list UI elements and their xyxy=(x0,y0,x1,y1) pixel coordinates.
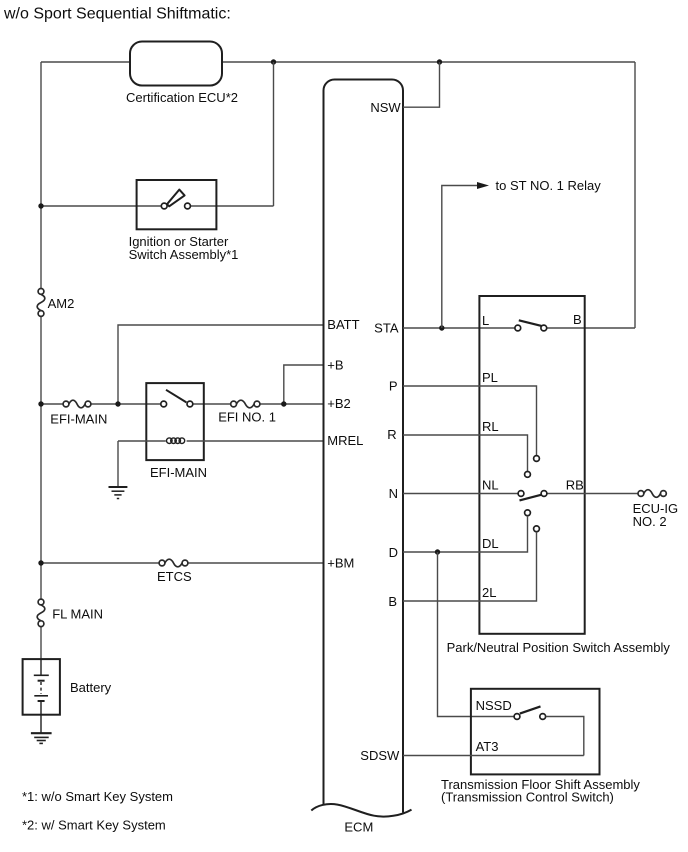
pin P xyxy=(389,379,398,394)
svg-text:w/o Sport Sequential Shiftmati: w/o Sport Sequential Shiftmatic: xyxy=(3,6,231,23)
wire P row xyxy=(403,386,537,456)
svg-text:R: R xyxy=(387,427,396,442)
switch NSSD blade xyxy=(520,706,541,713)
svg-text:Certification ECU*2: Certification ECU*2 xyxy=(126,90,238,105)
ignition switch contacts xyxy=(161,203,190,209)
switch NL-RB blade xyxy=(520,495,543,501)
pin B xyxy=(388,594,397,609)
contact DL upper end xyxy=(525,510,531,516)
svg-text:SDSW: SDSW xyxy=(360,748,400,763)
footnote 1 xyxy=(22,789,173,804)
terminal L xyxy=(482,313,489,328)
relay switch blade xyxy=(166,390,186,403)
label EFI NO. 1 xyxy=(218,409,276,424)
svg-text:L: L xyxy=(482,313,489,328)
node left rail / +BM row xyxy=(38,560,43,565)
svg-text:P: P xyxy=(389,379,398,394)
title xyxy=(3,6,231,23)
ignition or starter switch assembly box xyxy=(129,180,239,262)
terminal DL xyxy=(482,536,499,551)
transmission floor shift assembly box xyxy=(441,689,640,805)
ignition key lever xyxy=(167,190,185,207)
fuse ECU-IG NO. 2 xyxy=(638,490,666,498)
terminal RB xyxy=(566,478,584,493)
svg-text:Battery: Battery xyxy=(70,680,112,695)
switch L-B contacts xyxy=(515,325,547,331)
ground battery xyxy=(31,733,52,743)
relay EFI-MAIN box xyxy=(146,383,207,480)
relay switch contacts xyxy=(161,401,193,407)
svg-text:D: D xyxy=(389,545,398,560)
svg-text:NO. 2: NO. 2 xyxy=(633,514,667,529)
svg-text:(Transmission Control Switch): (Transmission Control Switch) xyxy=(441,790,614,805)
ECM outline xyxy=(311,80,411,835)
wire +BM row xyxy=(41,562,324,564)
svg-text:2L: 2L xyxy=(482,585,496,600)
svg-text:STA: STA xyxy=(374,321,399,336)
node STA / ST relay branch xyxy=(439,325,444,330)
svg-text:EFI-MAIN: EFI-MAIN xyxy=(150,465,207,480)
svg-text:BATT: BATT xyxy=(327,317,359,332)
svg-text:*2: w/ Smart Key System: *2: w/ Smart Key System xyxy=(22,818,166,833)
wire ignition row xyxy=(41,62,274,206)
svg-text:B: B xyxy=(573,312,582,327)
wire R row xyxy=(403,435,528,472)
switch NL-RB contacts xyxy=(518,491,547,497)
wire SDSW row xyxy=(403,755,584,757)
label FL MAIN xyxy=(52,606,103,621)
switch L-B blade xyxy=(519,320,542,326)
svg-text:PL: PL xyxy=(482,370,498,385)
svg-text:*1: w/o Smart Key System: *1: w/o Smart Key System xyxy=(22,789,173,804)
battery cells xyxy=(34,659,49,732)
label to ST NO. 1 Relay xyxy=(496,178,602,193)
ground relay coil xyxy=(109,487,128,499)
node left rail / EFI-MAIN row xyxy=(38,401,43,406)
wire N row xyxy=(403,493,638,495)
svg-text:NSW: NSW xyxy=(370,100,401,115)
terminal PL xyxy=(482,370,498,385)
contact 2L upper end xyxy=(534,526,540,532)
battery box xyxy=(23,659,112,715)
wire right rail xyxy=(634,62,636,328)
contact RL end xyxy=(525,472,531,478)
node top bus / NSW branch xyxy=(437,59,442,64)
wire NSW xyxy=(403,62,440,107)
fuse FL MAIN xyxy=(37,599,45,627)
svg-text:Park/Neutral Position Switch A: Park/Neutral Position Switch Assembly xyxy=(447,640,671,655)
arrowhead to ST NO. 1 Relay xyxy=(477,182,489,189)
terminal NSSD xyxy=(476,698,512,713)
fuse EFI-MAIN xyxy=(63,400,91,408)
terminal AT3 xyxy=(476,739,499,754)
label ECU-IG NO. 2 xyxy=(633,501,679,529)
svg-text:FL MAIN: FL MAIN xyxy=(52,606,103,621)
fuse AM2 xyxy=(37,289,45,317)
wire top bus xyxy=(41,61,635,63)
svg-text:RL: RL xyxy=(482,419,499,434)
fuse EFI NO. 1 xyxy=(231,400,260,408)
terminal NL xyxy=(482,478,499,493)
svg-text:B: B xyxy=(388,594,397,609)
terminal 2L xyxy=(482,585,496,600)
pin SDSW xyxy=(360,748,400,763)
node D / NSSD branch xyxy=(435,549,440,554)
pin NSW xyxy=(370,100,401,115)
wire B row xyxy=(403,532,537,601)
svg-text:EFI NO. 1: EFI NO. 1 xyxy=(218,409,276,424)
svg-text:N: N xyxy=(389,486,398,501)
relay coil xyxy=(167,438,185,444)
svg-text:+B2: +B2 xyxy=(327,396,351,411)
label ETCS xyxy=(157,569,192,584)
wire STA row xyxy=(403,327,635,329)
switch NSSD contacts xyxy=(514,714,546,720)
Certification ECU box xyxy=(126,42,238,106)
svg-text:Switch Assembly*1: Switch Assembly*1 xyxy=(129,247,239,262)
svg-text:MREL: MREL xyxy=(327,433,363,448)
node left rail / ignition row xyxy=(38,203,43,208)
svg-text:EFI-MAIN: EFI-MAIN xyxy=(50,411,107,426)
contact PL end xyxy=(534,456,540,462)
footnote 2 xyxy=(22,818,166,833)
pin R xyxy=(387,427,396,442)
svg-text:+BM: +BM xyxy=(327,556,354,571)
wire BATT xyxy=(118,325,324,404)
svg-text:ETCS: ETCS xyxy=(157,569,192,584)
svg-text:RB: RB xyxy=(566,478,584,493)
svg-text:AM2: AM2 xyxy=(48,296,75,311)
wire NSSD branch xyxy=(438,552,515,717)
svg-text:to ST NO. 1 Relay: to ST NO. 1 Relay xyxy=(496,178,602,193)
label AM2 xyxy=(48,296,75,311)
pin D xyxy=(389,545,398,560)
svg-text:NL: NL xyxy=(482,478,499,493)
node +B branch / +B2 row xyxy=(281,401,286,406)
svg-text:DL: DL xyxy=(482,536,499,551)
svg-text:+B: +B xyxy=(327,358,343,373)
wire +B branch xyxy=(284,365,324,404)
pin +B xyxy=(327,358,343,373)
pin STA xyxy=(374,321,399,336)
wire MREL row xyxy=(118,441,324,486)
svg-text:ECM: ECM xyxy=(344,820,373,835)
wire to ST NO. 1 Relay branch xyxy=(442,186,477,329)
svg-text:NSSD: NSSD xyxy=(476,698,512,713)
wire NSSD to AT3 link xyxy=(546,717,584,756)
pin BATT xyxy=(327,317,359,332)
fuse ETCS xyxy=(159,559,188,567)
node BATT branch / EFI-MAIN row xyxy=(115,401,120,406)
node top bus / ignition branch xyxy=(271,59,276,64)
pin N xyxy=(389,486,398,501)
pin +B2 xyxy=(327,396,351,411)
terminal RL xyxy=(482,419,499,434)
wire EFI-MAIN row xyxy=(41,403,324,405)
pin +BM xyxy=(327,556,354,571)
label EFI-MAIN fuse xyxy=(50,411,107,426)
terminal B xyxy=(573,312,582,327)
svg-text:AT3: AT3 xyxy=(476,739,499,754)
pin MREL xyxy=(327,433,363,448)
wire D row xyxy=(403,516,528,552)
park/neutral position switch assembly box xyxy=(447,296,671,655)
wire left rail xyxy=(40,62,42,659)
